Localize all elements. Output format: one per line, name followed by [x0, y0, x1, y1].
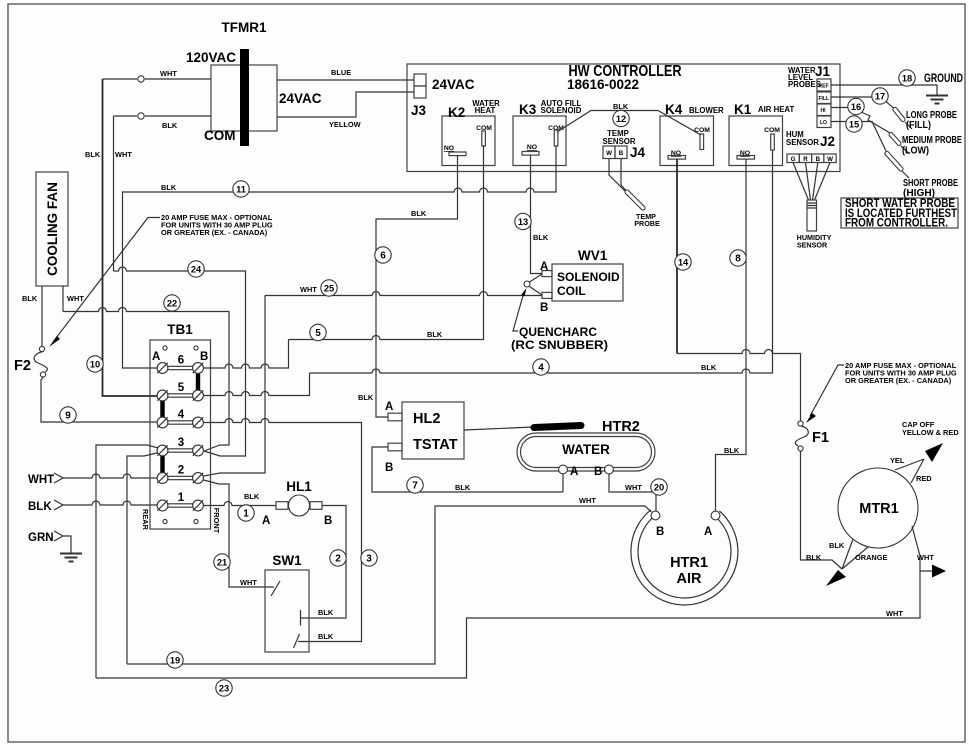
svg-text:AIR: AIR	[677, 571, 703, 587]
WHT arrow head	[932, 565, 946, 578]
svg-text:SENSOR: SENSOR	[786, 138, 819, 147]
svg-text:(LOW): (LOW)	[902, 146, 929, 157]
svg-text:18: 18	[902, 73, 912, 83]
svg-text:BLUE: BLUE	[331, 68, 351, 77]
svg-text:PROBE: PROBE	[634, 219, 660, 228]
svg-text:20: 20	[654, 482, 664, 492]
svg-text:A: A	[385, 401, 393, 413]
svg-text:HL1: HL1	[286, 479, 312, 494]
svg-text:GROUND: GROUND	[924, 73, 963, 85]
svg-text:SW1: SW1	[272, 553, 302, 568]
WV1 terminal A	[542, 271, 552, 277]
relay K4 NO wire to fuse F1 (node 14)	[676, 159, 678, 354]
TB1 row 5 link	[168, 394, 193, 397]
wire 9 (F2 to TB1 A4)	[41, 377, 157, 422]
TB1 screw A1	[157, 500, 168, 511]
wire BLK vertical (node 10, to TB1 A5)	[103, 79, 158, 396]
wire 11 (BLK, K3-COM to TB1 A6)	[123, 146, 557, 368]
svg-text:REAR: REAR	[141, 509, 150, 531]
jumper bar A5-A4	[160, 396, 164, 423]
lamp HL1	[276, 502, 288, 510]
node 19	[167, 652, 183, 668]
svg-text:W: W	[827, 156, 833, 163]
relay K2 box	[442, 116, 495, 166]
svg-text:BLK: BLK	[318, 608, 334, 617]
svg-text:WHT: WHT	[579, 496, 596, 505]
svg-text:6: 6	[178, 355, 184, 367]
svg-text:BLOWER: BLOWER	[689, 106, 724, 115]
svg-text:21: 21	[217, 557, 227, 567]
svg-text:FILL: FILL	[819, 96, 830, 102]
svg-text:HTR1: HTR1	[670, 555, 708, 571]
TB1 row 1 link	[168, 504, 193, 507]
transformer TFMR1 core bar	[240, 49, 249, 146]
svg-text:PROBES: PROBES	[788, 80, 821, 89]
transformer TFMR1 body	[211, 65, 277, 131]
wire J1-HI to medium probe	[831, 107, 849, 109]
svg-text:9: 9	[65, 410, 71, 421]
TB1 screw A3	[157, 445, 168, 456]
short probe (HIGH)	[887, 154, 901, 170]
svg-text:BLK: BLK	[806, 553, 822, 562]
svg-text:3: 3	[178, 437, 184, 449]
svg-text:BLK: BLK	[724, 446, 740, 455]
wire TB1 B1 to lamp HL1 (wire 1, BLK)	[204, 502, 277, 506]
svg-text:BLK: BLK	[85, 150, 101, 159]
svg-text:J4: J4	[630, 145, 646, 160]
TB1 row 4 link	[168, 421, 193, 424]
HL2 terminal A	[388, 413, 402, 421]
wire fan BLK lead to F2	[41, 286, 43, 346]
svg-text:13: 13	[518, 217, 528, 227]
svg-text:7: 7	[412, 480, 418, 491]
solenoid coil box	[552, 264, 623, 301]
svg-text:G: G	[791, 156, 796, 163]
TB1 screw B2	[193, 473, 204, 484]
relay K2 NO wire to HL2-A (node 6, BLK)	[376, 156, 458, 418]
connector J1 terminal REF	[817, 79, 831, 91]
connector J1 terminal FILL	[817, 92, 831, 104]
HTR2 terminal A	[559, 465, 568, 474]
wire TSTAT to HTR2 element	[464, 427, 533, 430]
svg-text:B: B	[594, 466, 602, 478]
svg-text:BLK: BLK	[411, 209, 427, 218]
svg-text:BLK: BLK	[533, 233, 549, 242]
note box SHORT WATER PROBE	[841, 198, 958, 228]
svg-text:MTR1: MTR1	[859, 501, 898, 517]
svg-text:NO: NO	[527, 144, 537, 151]
TB1 row 6 link	[168, 366, 193, 369]
node 9	[60, 407, 76, 423]
svg-text:SOLENOID: SOLENOID	[557, 270, 620, 284]
svg-text:HI: HI	[821, 108, 827, 114]
TB1 screw B6	[193, 363, 204, 374]
svg-text:B: B	[540, 302, 548, 314]
svg-text:WHT: WHT	[886, 609, 903, 618]
svg-text:YELLOW: YELLOW	[329, 120, 361, 129]
leader arrow to quencharc	[513, 292, 524, 331]
SW1 top blade	[271, 581, 280, 596]
svg-text:GRN: GRN	[28, 532, 54, 544]
svg-text:BLK: BLK	[162, 121, 178, 130]
thermostat HL2/TSTAT box	[402, 402, 464, 459]
terminal circle on BLK wire	[138, 113, 144, 119]
svg-text:YELLOW & RED: YELLOW & RED	[902, 428, 959, 437]
relay K1 box	[729, 116, 783, 166]
node 22	[164, 295, 180, 311]
svg-text:HEAT: HEAT	[475, 106, 496, 115]
wire J4-W to temp probe	[609, 159, 627, 194]
svg-text:BLK: BLK	[829, 541, 845, 550]
svg-text:K2: K2	[448, 105, 465, 120]
TB1 row 3 link	[168, 449, 193, 452]
svg-text:120VAC: 120VAC	[186, 50, 236, 65]
svg-text:WHT: WHT	[625, 483, 642, 492]
svg-text:WHT: WHT	[300, 285, 317, 294]
relay K1 NO wire to HTR1-A (node 8, BLK)	[716, 159, 747, 511]
WV1 terminal B	[542, 292, 552, 298]
svg-text:YEL: YEL	[890, 456, 905, 465]
node 21	[214, 554, 230, 570]
TB1 screw A6	[157, 363, 168, 374]
TB1 screw A2	[157, 473, 168, 484]
wire TB1 row4 to SW1 lower contact (wire 3)	[204, 419, 362, 642]
svg-text:WATER: WATER	[562, 442, 610, 457]
svg-text:WHT: WHT	[917, 553, 934, 562]
wire J4-B to temp probe	[621, 159, 627, 192]
node 23	[216, 680, 232, 696]
wire HTR2-A down to wire 7	[562, 474, 564, 492]
HTR1 terminal B	[651, 511, 660, 520]
wire TB1 B2 to SW1 (wire 21, WHT)	[204, 480, 275, 587]
svg-text:F2: F2	[14, 358, 31, 374]
svg-text:22: 22	[167, 298, 177, 308]
node 17	[872, 88, 888, 104]
svg-text:24VAC: 24VAC	[432, 77, 475, 92]
cap-off arrow head	[925, 443, 943, 462]
SW1 middle contact bar	[300, 610, 302, 626]
relay K3 NO wire to WV1-A (node 13, BLK)	[531, 155, 543, 274]
svg-text:17: 17	[875, 91, 885, 101]
leader arrow to F2 (fuse note)	[53, 218, 160, 343]
svg-text:6: 6	[380, 250, 386, 261]
svg-text:BLK: BLK	[22, 294, 38, 303]
svg-text:WV1: WV1	[578, 248, 608, 263]
svg-text:23: 23	[219, 683, 229, 693]
TB1 mount holes	[163, 346, 167, 350]
wire WHT to transformer 120VAC	[103, 78, 138, 80]
TB1 screw B3	[193, 445, 204, 456]
fuse F2	[39, 346, 44, 351]
svg-text:W: W	[606, 150, 612, 157]
wire 25 (WHT, B2 to WV1-B)	[265, 292, 542, 296]
node 1	[238, 505, 254, 521]
svg-text:4: 4	[538, 362, 544, 373]
svg-text:A: A	[152, 351, 160, 363]
MTR1 yellow/red leads to cap-off arrow	[895, 459, 924, 483]
svg-text:HL2: HL2	[413, 411, 440, 427]
node 20	[651, 479, 667, 495]
svg-text:TB1: TB1	[167, 322, 193, 337]
svg-text:FROM CONTROLLER.: FROM CONTROLLER.	[845, 218, 948, 230]
svg-text:4: 4	[178, 409, 185, 421]
svg-text:WHT: WHT	[28, 474, 54, 486]
svg-text:FRONT: FRONT	[212, 508, 221, 534]
svg-text:TSTAT: TSTAT	[413, 437, 458, 453]
wire HL2-B to HTR2-A (wire 7, BLK)	[372, 447, 563, 492]
jumper bar B6-B5	[196, 368, 200, 396]
node 16	[848, 98, 864, 114]
wire 12 (BLK, K3-COM to K4-COM)	[557, 111, 701, 136]
wire BLK to transformer COM	[114, 115, 138, 117]
ground symbol (18)	[926, 96, 948, 104]
COOLING FAN box	[36, 172, 68, 286]
svg-text:25: 25	[324, 283, 334, 293]
TB1 screw B4	[193, 417, 204, 428]
leader arrow to F1 (fuse note)	[810, 365, 844, 416]
svg-text:1: 1	[178, 492, 185, 504]
terminal circle on WHT wire	[138, 76, 144, 82]
svg-text:BLK: BLK	[28, 501, 52, 513]
wire F1 to MTR1 BLK lead	[801, 451, 843, 569]
svg-text:2: 2	[178, 465, 184, 477]
HTR2 terminal B	[605, 465, 614, 474]
fuse F1	[798, 421, 803, 426]
node 10	[87, 356, 103, 372]
connector J1 terminal HI	[817, 104, 831, 116]
node 14	[675, 254, 691, 270]
node 12	[613, 110, 629, 126]
svg-text:WHT: WHT	[67, 294, 84, 303]
svg-text:(FILL): (FILL)	[906, 120, 931, 131]
node 15	[846, 116, 862, 132]
svg-text:8: 8	[735, 253, 741, 264]
node 8	[730, 250, 746, 266]
svg-text:A: A	[540, 261, 548, 273]
svg-text:BLK: BLK	[318, 632, 334, 641]
relay K4 box	[660, 116, 714, 166]
wire BLK input to TB1 A1	[63, 501, 157, 505]
wire BLUE (transformer to J3)	[277, 79, 414, 81]
svg-text:1: 1	[243, 508, 249, 519]
svg-text:K4: K4	[665, 102, 683, 117]
svg-text:B: B	[816, 156, 821, 163]
heater HTR2 WATER body	[517, 433, 655, 471]
jumper bar A3-A2	[160, 451, 164, 479]
wire A3 to line 23 riser	[127, 451, 168, 665]
heater HTR2 element bar	[534, 426, 581, 428]
svg-text:REF: REF	[819, 84, 829, 90]
wire A3 to line 19 riser	[96, 445, 168, 678]
BLK/ORANGE arrow head	[826, 570, 846, 586]
svg-text:BLK: BLK	[358, 393, 374, 402]
svg-text:COOLING FAN: COOLING FAN	[45, 182, 60, 276]
svg-text:AIR HEAT: AIR HEAT	[758, 105, 794, 114]
svg-text:RED: RED	[916, 474, 932, 483]
svg-text:A: A	[704, 526, 712, 538]
TB1 screw A4	[157, 417, 168, 428]
wire WHT vertical to wire 24	[113, 116, 115, 271]
wire 5 (BLK, B6 to K2-COM)	[289, 146, 484, 340]
wire 22 (WHT, fan to TB1 B3)	[63, 308, 229, 452]
HTR1 terminal A	[711, 511, 720, 520]
connector J2 terminals G R B W	[787, 154, 799, 163]
wire TB1 row5 to wire 4	[204, 373, 310, 396]
connector J3 terminals	[414, 74, 426, 86]
wire 23 (WHT, A3 to MTR1)	[96, 571, 932, 678]
medium probe (LOW)	[891, 135, 899, 144]
wires J2 to humidity sensor	[793, 163, 809, 201]
svg-text:19: 19	[170, 655, 180, 665]
svg-text:COM: COM	[764, 127, 780, 134]
svg-text:B: B	[324, 515, 332, 527]
svg-text:BLK: BLK	[455, 483, 471, 492]
TB1 screw B1	[193, 500, 204, 511]
svg-text:WHT: WHT	[240, 578, 257, 587]
svg-text:10: 10	[90, 359, 100, 369]
switch SW1 box	[265, 570, 309, 652]
svg-text:OR GREATER (EX. - CANADA): OR GREATER (EX. - CANADA)	[845, 376, 952, 385]
svg-text:3: 3	[366, 553, 372, 564]
wire J1-REF to ground	[831, 85, 937, 95]
wire J1-FILL to long probe	[831, 96, 873, 98]
svg-text:TFMR1: TFMR1	[222, 20, 267, 35]
wire J1-LO to short probe	[831, 122, 886, 152]
svg-text:QUENCHARC: QUENCHARC	[519, 327, 597, 339]
node 7	[407, 477, 423, 493]
svg-text:B: B	[385, 462, 393, 474]
svg-text:2: 2	[335, 553, 341, 564]
svg-text:14: 14	[678, 257, 689, 267]
wire 4 (BLK, B5 to K1-COM)	[310, 150, 773, 373]
relay K3 box	[513, 116, 566, 166]
svg-text:B: B	[656, 526, 664, 538]
wire 19 (WHT, A3 to HTR1-B)	[127, 506, 652, 664]
SW1 bottom blade	[294, 634, 300, 648]
svg-text:B: B	[200, 351, 208, 363]
svg-text:OR GREATER (EX. - CANADA): OR GREATER (EX. - CANADA)	[161, 228, 268, 237]
wire WHT input to TB1 A2	[63, 474, 157, 478]
svg-text:J3: J3	[411, 103, 427, 118]
temp probe body	[627, 192, 643, 208]
svg-text:COIL: COIL	[557, 284, 586, 298]
svg-text:A: A	[262, 515, 270, 527]
wire TB1 B2 to wire 25	[204, 296, 266, 477]
svg-text:BLK: BLK	[613, 102, 629, 111]
MTR1 black/orange leads to arrow	[842, 539, 868, 569]
TB1 screw B5	[193, 390, 204, 401]
svg-text:J2: J2	[820, 134, 835, 149]
svg-text:BLK: BLK	[244, 492, 260, 501]
node 13	[515, 213, 531, 229]
svg-text:NO: NO	[444, 145, 454, 152]
MTR1 white lead to arrow	[912, 526, 920, 571]
svg-text:A: A	[570, 466, 578, 478]
long probe (FILL)	[895, 110, 903, 120]
humidity sensor body	[807, 200, 817, 231]
svg-text:SENSOR: SENSOR	[797, 241, 828, 250]
HW controller box	[407, 64, 840, 172]
svg-text:(RC SNUBBER): (RC SNUBBER)	[511, 340, 608, 352]
svg-text:COM: COM	[204, 128, 236, 143]
node 11	[233, 181, 249, 197]
svg-text:K1: K1	[734, 102, 752, 117]
wire HL1-B to SW1 middle contact (wire 2, BLK)	[301, 506, 347, 619]
svg-text:K3: K3	[519, 102, 537, 117]
wire HTR2-B to HTR1-B (wire 20, WHT)	[609, 474, 656, 511]
svg-text:11: 11	[236, 184, 246, 194]
svg-text:16: 16	[851, 102, 861, 112]
heater HTR1 body (open ring)	[631, 510, 738, 605]
svg-text:WHT: WHT	[115, 150, 132, 159]
svg-text:ORANGE: ORANGE	[855, 553, 888, 562]
wire YELLOW (transformer to J3)	[277, 92, 414, 117]
svg-text:18616-0022: 18616-0022	[567, 77, 639, 92]
HL2 terminal B	[388, 443, 402, 451]
node 5	[310, 324, 326, 340]
svg-text:F1: F1	[812, 430, 829, 446]
wire fan WHT lead	[62, 286, 64, 312]
connector J4 terminals W B	[603, 146, 615, 159]
terminal block TB1 box	[150, 340, 211, 529]
TB1 row 2 link	[168, 476, 193, 479]
svg-text:15: 15	[849, 119, 859, 129]
svg-text:LO: LO	[820, 120, 827, 126]
wire TB1 row6 to wire 5	[204, 340, 289, 369]
connector J1 terminal LO	[817, 116, 831, 128]
node 24	[188, 261, 204, 277]
node 18	[899, 70, 915, 86]
node 4	[533, 359, 549, 375]
quencharc RC snubber	[524, 281, 530, 287]
svg-text:WHT: WHT	[160, 69, 177, 78]
svg-text:BLK: BLK	[701, 363, 717, 372]
svg-text:24: 24	[191, 264, 202, 274]
svg-text:12: 12	[616, 114, 626, 124]
node 25	[321, 280, 337, 296]
svg-text:5: 5	[178, 382, 185, 394]
motor MTR1 body	[838, 468, 918, 548]
svg-text:SOLENOID: SOLENOID	[541, 106, 582, 115]
svg-text:B: B	[619, 150, 624, 157]
TB1 screw A5	[157, 390, 168, 401]
node 6	[375, 247, 391, 263]
wire GRN to ground	[63, 536, 71, 553]
svg-text:MEDIUM PROBE: MEDIUM PROBE	[902, 135, 962, 146]
wire 24 (WHT, to TB1 B3)	[114, 267, 246, 456]
ground symbol (GRN)	[60, 554, 82, 562]
svg-text:J1: J1	[815, 64, 831, 79]
node 2	[330, 550, 346, 566]
svg-text:R: R	[803, 156, 808, 163]
svg-text:5: 5	[315, 328, 321, 339]
svg-text:BLK: BLK	[427, 330, 443, 339]
svg-text:24VAC: 24VAC	[279, 91, 322, 106]
node 3	[361, 550, 377, 566]
svg-text:BLK: BLK	[161, 183, 177, 192]
